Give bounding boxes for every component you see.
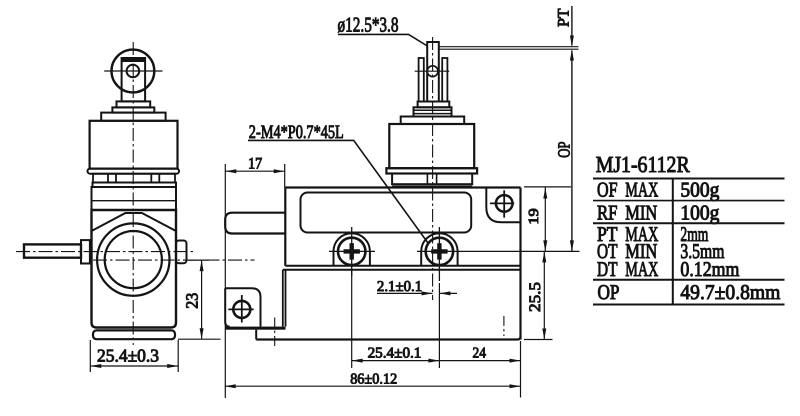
terminal screw right bbox=[426, 238, 453, 265]
svg-text:OP: OP bbox=[598, 280, 620, 304]
plunger pin bbox=[427, 42, 439, 102]
svg-text:86±0.12: 86±0.12 bbox=[350, 371, 397, 387]
body bottom edge bbox=[256, 337, 520, 340]
svg-text:OF: OF bbox=[597, 178, 618, 202]
bushing step bbox=[401, 117, 465, 125]
teeth strip (side view) bbox=[93, 174, 175, 183]
pin axis centerline bbox=[16, 251, 195, 253]
boss outer circle (side view) bbox=[97, 223, 169, 295]
mounting hole bottom-left bbox=[233, 301, 250, 318]
svg-text:25.4±0.3: 25.4±0.3 bbox=[97, 346, 159, 366]
svg-text:500g: 500g bbox=[680, 178, 719, 202]
bottom plate (side view) bbox=[93, 330, 175, 339]
bracket step 1 bbox=[117, 101, 151, 107]
body left edge upper bbox=[284, 188, 286, 266]
roller R (side view) bbox=[111, 50, 154, 93]
svg-text:ø12.5*3.8: ø12.5*3.8 bbox=[338, 13, 399, 37]
dim 24 bbox=[439, 360, 520, 362]
side view vertical centerline bbox=[132, 42, 134, 345]
top-right pocket bbox=[486, 188, 520, 223]
svg-text:24: 24 bbox=[473, 346, 487, 362]
dim 86±0.12 bbox=[520, 341, 522, 398]
body top edge bbox=[285, 186, 520, 188]
side plunger rod (side view) bbox=[24, 244, 81, 257]
dim PT / OP line bbox=[571, 6, 573, 46]
bushing nut bbox=[392, 174, 472, 185]
upper body bottom line bbox=[285, 265, 520, 267]
plunger centerline bbox=[432, 37, 434, 300]
side plunger collar bbox=[81, 240, 90, 263]
fork base bbox=[418, 102, 450, 108]
dim 23 extension bottom bbox=[178, 338, 221, 340]
inner recessed rounded rect bbox=[301, 193, 472, 233]
roller pin circle (front) bbox=[427, 66, 438, 77]
svg-text:25.5: 25.5 bbox=[527, 282, 544, 312]
bushing cylinder bbox=[389, 124, 474, 168]
bushing flange bbox=[386, 168, 477, 173]
dim 25.4±0.3 line bbox=[90, 365, 178, 367]
base plate (side view) bbox=[101, 113, 165, 121]
table divider bbox=[672, 179, 674, 305]
terminal arch right bbox=[421, 233, 457, 266]
boss inner circle (side view) bbox=[105, 231, 162, 288]
svg-text:MAX: MAX bbox=[625, 257, 658, 281]
boss axis centerline bbox=[93, 259, 255, 261]
side pin (front view) bbox=[225, 213, 285, 234]
lower body left double edge bbox=[282, 270, 284, 327]
dim 23 extension top bbox=[188, 259, 209, 261]
roller crosshair horizontal bbox=[104, 70, 162, 72]
svg-text:OP: OP bbox=[555, 142, 574, 158]
terminal arch left bbox=[334, 233, 370, 266]
svg-text:2.1±0.1: 2.1±0.1 bbox=[377, 279, 422, 295]
tent lines (side view) bbox=[92, 213, 177, 231]
fork column right bbox=[442, 58, 447, 102]
dim 23 line bbox=[201, 260, 203, 339]
short centerline bottom-right bbox=[503, 316, 505, 336]
dim 25.4±0.1 bbox=[351, 270, 353, 368]
svg-text:MJ1-6112R: MJ1-6112R bbox=[596, 152, 691, 177]
dim 17 bbox=[224, 164, 226, 398]
svg-text:MAX: MAX bbox=[625, 178, 658, 202]
bracket step 2 bbox=[112, 107, 154, 112]
dim 25.4±0.3 extensions bbox=[89, 340, 91, 372]
table lines bbox=[593, 178, 785, 180]
head block (side view) bbox=[90, 121, 178, 169]
roller pin crosshair bbox=[415, 70, 450, 72]
svg-text:PT: PT bbox=[556, 8, 573, 27]
case upper band (side view) bbox=[92, 187, 177, 210]
operating position reference line bbox=[439, 48, 579, 50]
lower body top line bbox=[283, 269, 521, 271]
svg-text:MIN: MIN bbox=[625, 200, 657, 224]
case body (side view) bbox=[92, 210, 177, 328]
lever bracket (side view) bbox=[122, 58, 146, 101]
fork column left bbox=[419, 58, 424, 102]
free position reference line bbox=[439, 46, 579, 48]
svg-text:17: 17 bbox=[248, 155, 262, 172]
bracket top bar (filled) bbox=[122, 58, 146, 63]
short centerline bottom-left bbox=[274, 318, 276, 347]
washer stack bbox=[414, 107, 452, 116]
foot step bbox=[255, 330, 257, 340]
roller pin hole (side view) bbox=[127, 65, 140, 78]
dim 25.5 bbox=[524, 339, 553, 341]
svg-text:0.12mm: 0.12mm bbox=[680, 257, 739, 281]
mounting hole top-right bbox=[496, 195, 513, 212]
body right edge bbox=[519, 188, 521, 340]
svg-text:23: 23 bbox=[183, 293, 202, 309]
head flange 2 bbox=[93, 183, 177, 188]
ear bottom thick band bbox=[225, 327, 285, 330]
svg-text:DT: DT bbox=[597, 257, 618, 281]
right nub (side view) bbox=[176, 241, 187, 264]
svg-text:100g: 100g bbox=[680, 200, 719, 224]
head flange 1 bbox=[88, 169, 180, 174]
svg-text:19: 19 bbox=[527, 208, 542, 224]
svg-text:RF: RF bbox=[597, 200, 618, 224]
svg-text:49.7±0.8mm: 49.7±0.8mm bbox=[680, 280, 780, 304]
svg-text:25.4±0.1: 25.4±0.1 bbox=[368, 346, 422, 362]
dim 19 bbox=[524, 186, 571, 188]
bottom-left ear bbox=[225, 288, 260, 326]
terminal screw left bbox=[338, 238, 365, 265]
